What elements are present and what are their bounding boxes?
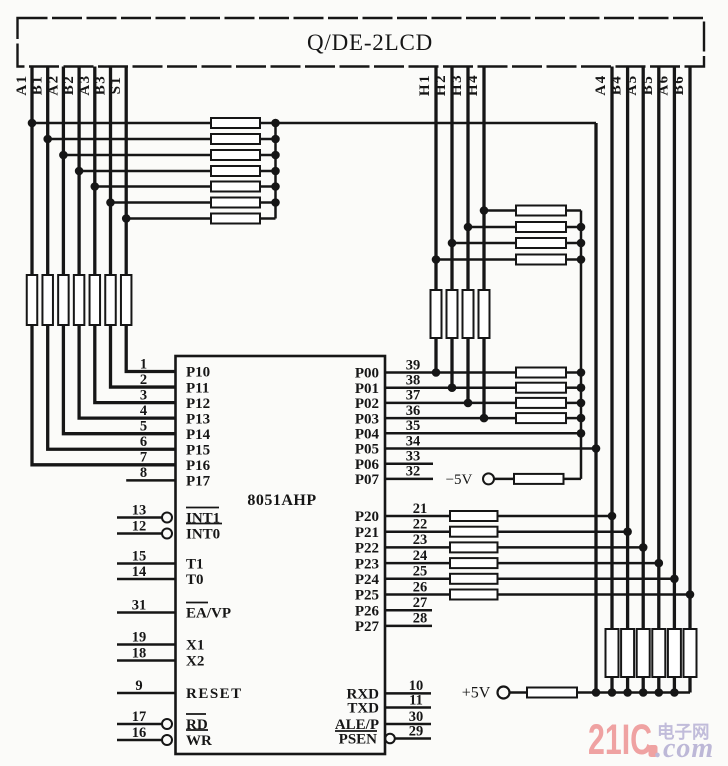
svg-text:P04: P04 — [355, 427, 380, 443]
node junction A2 row3 — [59, 151, 68, 160]
node bus1 row4 — [271, 167, 280, 176]
resistor R38 — [652, 629, 665, 677]
21IC logo — [588, 716, 714, 764]
svg-text:T0: T0 — [186, 572, 204, 588]
21IC logo period — [649, 745, 658, 757]
node H4 P03 junction — [480, 414, 489, 423]
wire H3 vertical from LCD — [466, 67, 469, 291]
pin 12 bubble — [162, 529, 172, 539]
wire R23 to bus2 — [566, 371, 581, 374]
wire pin 9 stub — [117, 692, 176, 695]
svg-text:P01: P01 — [355, 381, 379, 397]
wire B1 vertical from LCD — [46, 67, 49, 276]
wire R31 to B5 — [498, 562, 659, 565]
overline WR — [186, 729, 208, 731]
svg-text:P17: P17 — [186, 474, 211, 490]
svg-text:39: 39 — [406, 357, 421, 373]
svg-text:15: 15 — [132, 548, 147, 564]
svg-text:Q/DE-2LCD: Q/DE-2LCD — [307, 30, 433, 55]
svg-text:14: 14 — [132, 564, 147, 580]
wire A5 resistor to +5V bus — [642, 677, 645, 693]
svg-text:H1: H1 — [417, 74, 433, 96]
wire H row 4 — [436, 258, 516, 261]
wire A4 resistor to +5V bus — [610, 677, 613, 693]
svg-text:−5V: −5V — [446, 472, 473, 488]
node bus2 P04 — [577, 429, 586, 438]
node bus2 P01 — [577, 383, 586, 392]
wire +5V feed vertical — [594, 123, 597, 693]
wire pin 27 stub — [385, 609, 432, 612]
wire R1 to bus — [260, 122, 276, 125]
wire row S1 to R7 — [126, 217, 211, 220]
svg-text:37: 37 — [406, 388, 421, 404]
wire H3 below resistor to pin 37 — [466, 338, 469, 403]
resistor R25 — [516, 398, 566, 408]
pin 29 bubble — [385, 734, 395, 744]
wire R4 to bus — [260, 170, 276, 173]
node P05 tie to +5V feed — [592, 444, 601, 453]
svg-text:24: 24 — [413, 548, 428, 564]
wire H1 vertical from LCD — [434, 67, 437, 291]
resistor R16 — [516, 222, 566, 232]
svg-text:4: 4 — [140, 403, 147, 419]
svg-text:RESET: RESET — [186, 686, 243, 702]
svg-text:+5V: +5V — [462, 685, 491, 702]
wire pin 17 stub — [117, 723, 162, 726]
resistor R13 — [105, 275, 116, 325]
wire pin 13 stub — [117, 516, 162, 519]
svg-text:P20: P20 — [355, 509, 379, 525]
wire pin 38 row — [385, 386, 516, 389]
wire pin 35 row — [385, 432, 581, 435]
-5V terminal — [483, 473, 494, 484]
svg-text:29: 29 — [409, 723, 424, 739]
svg-text:5: 5 — [140, 419, 147, 435]
wire S1 vertical from LCD — [125, 67, 128, 276]
resistor R11 — [74, 275, 85, 325]
svg-text:P05: P05 — [355, 442, 379, 458]
svg-text:P14: P14 — [186, 427, 211, 443]
node bus1 row5 — [271, 182, 280, 191]
wire H4 below resistor to pin 36 — [482, 338, 485, 418]
wire R26 to bus2 — [566, 417, 581, 420]
node +5V bus node A4 — [608, 688, 617, 697]
resistor R12 — [90, 275, 101, 325]
wire pull-up bus 1 — [274, 123, 277, 219]
node +5V bus node A5 — [639, 688, 648, 697]
resistor R14 — [121, 275, 132, 325]
wire H4 vertical from LCD — [482, 67, 485, 291]
svg-text:2: 2 — [140, 372, 147, 388]
resistor R8 — [27, 275, 38, 325]
wire A4 vertical from LCD — [610, 67, 613, 630]
resistor R37 — [637, 629, 650, 677]
wire R24 to bus2 — [566, 386, 581, 389]
wire R17 to bus2 — [566, 242, 581, 245]
wire row A1 to R1 — [32, 122, 211, 125]
node H3 row junction — [464, 223, 473, 232]
node bus2 H row3 — [577, 239, 586, 248]
wire A1 vertical from LCD — [30, 67, 33, 276]
wire pin 15 stub — [117, 562, 176, 565]
wire R28 to A4 — [498, 515, 613, 518]
node bus1 row2 — [271, 135, 280, 144]
wire A2 below resistor to pin 5 — [63, 325, 175, 434]
resistor R9 — [42, 275, 53, 325]
svg-text:P16: P16 — [186, 458, 211, 474]
wire row B3 to R6 — [111, 201, 212, 204]
wire pin 19 stub — [117, 643, 176, 646]
LCD module Q/DE-2LCD — [18, 18, 705, 67]
svg-text:A4: A4 — [593, 74, 609, 95]
wire pin 12 stub — [117, 532, 162, 535]
svg-text:18: 18 — [132, 645, 147, 661]
node bus1 row6 — [271, 198, 280, 207]
wire B2 vertical from LCD — [77, 67, 80, 276]
svg-text:X2: X2 — [186, 654, 204, 670]
svg-text:1: 1 — [140, 356, 147, 372]
wire +5V bottom bus — [577, 691, 690, 694]
svg-text:P11: P11 — [186, 380, 209, 396]
svg-text:P27: P27 — [355, 619, 380, 635]
resistor R27 — [514, 474, 564, 484]
node bus2 P00 — [577, 368, 586, 377]
wire R16 to bus2 — [566, 226, 581, 229]
wire pin 28 stub — [385, 625, 432, 628]
wire A6 vertical from LCD — [673, 67, 676, 630]
resistor R1 — [211, 118, 260, 128]
resistor R29 — [450, 527, 498, 537]
wire R5 to bus — [260, 185, 276, 188]
wire B6 vertical from LCD — [688, 67, 691, 630]
overline PSEN — [335, 730, 377, 732]
pin 17 bubble — [162, 719, 172, 729]
svg-text:WR: WR — [186, 733, 212, 749]
resistor R33 — [450, 590, 498, 600]
svg-text:13: 13 — [132, 502, 147, 518]
svg-text:27: 27 — [413, 595, 428, 611]
wire R25 to bus2 — [566, 402, 581, 405]
svg-text:33: 33 — [406, 449, 421, 465]
wire B5 resistor to +5V bus — [657, 677, 660, 693]
wire pin 21 row — [385, 515, 450, 518]
svg-text:6: 6 — [140, 434, 147, 450]
wire pin 37 row — [385, 402, 516, 405]
node H3 P02 junction — [464, 399, 473, 408]
overline INT1 — [186, 507, 219, 509]
resistor R28 — [450, 511, 498, 521]
resistor R34 — [527, 688, 577, 698]
svg-text:T1: T1 — [186, 557, 204, 573]
svg-text:21IC: 21IC — [588, 716, 652, 764]
node A5 P22 junction — [639, 543, 648, 552]
wire pin 23 row — [385, 546, 450, 549]
microcontroller U1 8051AHP body — [176, 356, 386, 754]
svg-text:11: 11 — [409, 692, 423, 708]
wire pin 16 stub — [117, 739, 162, 742]
wire pin 30 ALE stub — [385, 723, 431, 726]
node H2 P01 junction — [448, 383, 457, 392]
wire B4 vertical from LCD — [626, 67, 629, 630]
resistor R19 — [431, 290, 442, 338]
wire pin 25 row — [385, 578, 450, 581]
wire row A3 to R5 — [95, 185, 211, 188]
resistor R15 — [516, 206, 566, 216]
node junction B1 row2 — [43, 135, 52, 144]
resistor R31 — [450, 558, 498, 568]
resistor R24 — [516, 383, 566, 393]
svg-text:8: 8 — [140, 465, 147, 481]
wire pin 8 stub — [126, 479, 175, 482]
wire pin 34 row — [385, 447, 596, 450]
wire A1 below resistor to pin 7 — [32, 325, 176, 465]
svg-text:26: 26 — [413, 579, 428, 595]
node bus2 H row4 — [577, 255, 586, 264]
svg-text:P00: P00 — [355, 366, 379, 382]
overline INT0 — [186, 523, 222, 525]
wire B6 resistor to +5V bus — [688, 677, 691, 693]
wire R27 to bus2 — [564, 478, 582, 481]
resistor R5 — [211, 182, 260, 192]
wire -5V to R27 — [494, 478, 514, 481]
wire row B2 to R4 — [79, 170, 211, 173]
resistor R32 — [450, 574, 498, 584]
svg-text:P13: P13 — [186, 411, 210, 427]
svg-text:22: 22 — [413, 517, 428, 533]
svg-text:3: 3 — [140, 387, 147, 403]
svg-text:P10: P10 — [186, 365, 210, 381]
svg-text:31: 31 — [132, 597, 147, 613]
resistor R22 — [479, 290, 490, 338]
node bus1 row1 — [271, 119, 280, 128]
wire pin 22 row — [385, 530, 450, 533]
wire B2 below resistor to pin 4 — [79, 325, 175, 418]
wire pin 39 row — [385, 371, 516, 374]
svg-text:EA/VP: EA/VP — [186, 606, 231, 622]
svg-text:P07: P07 — [355, 472, 380, 488]
resistor R17 — [516, 238, 566, 248]
svg-text:P23: P23 — [355, 556, 379, 572]
wire H row 1 — [484, 209, 516, 212]
pin 16 bubble — [162, 735, 172, 745]
resistor R26 — [516, 413, 566, 423]
svg-text:P15: P15 — [186, 442, 210, 458]
wire row B1 to R2 — [48, 138, 211, 141]
wire R7 to bus — [260, 217, 276, 220]
svg-text:P06: P06 — [355, 457, 380, 473]
wire +5V feed top — [276, 122, 597, 125]
svg-text:A1: A1 — [14, 74, 30, 95]
wire A5 vertical from LCD — [642, 67, 645, 630]
node junction S1 row7 — [122, 214, 131, 223]
resistor R30 — [450, 542, 498, 552]
svg-text:INT0: INT0 — [186, 527, 220, 543]
svg-text:32: 32 — [406, 464, 421, 480]
resistor R36 — [621, 629, 634, 677]
node junction A1 row1 — [28, 119, 37, 128]
node B4 P21 junction — [623, 527, 632, 536]
wire R29 to B4 — [498, 530, 628, 533]
node B6 P25 junction — [686, 590, 695, 599]
node B5 P23 junction — [655, 559, 664, 568]
svg-text:16: 16 — [132, 725, 147, 741]
pin 13 bubble — [162, 513, 172, 523]
wire pin 11 TXD stub — [385, 706, 431, 709]
node bus2 P02 — [577, 399, 586, 408]
node H1 row junction — [432, 255, 441, 264]
wire pin 24 row — [385, 562, 450, 565]
resistor R21 — [463, 290, 474, 338]
svg-text:12: 12 — [132, 518, 147, 534]
svg-text:25: 25 — [413, 564, 428, 580]
wire pin 32 stub — [385, 478, 433, 481]
svg-text:X1: X1 — [186, 638, 204, 654]
node +5V bus node B5 — [655, 688, 664, 697]
wire R3 to bus — [260, 154, 276, 157]
svg-text:9: 9 — [135, 678, 142, 694]
wire H2 below resistor to pin 38 — [450, 338, 453, 388]
wire H row 2 — [468, 226, 516, 229]
node +5V feed to bottom bus — [592, 688, 601, 697]
wire A3 vertical from LCD — [93, 67, 96, 276]
wire R32 to A6 — [498, 578, 675, 581]
wire S1 below resistor to pin 1 — [126, 325, 175, 372]
node bus2 H row2 — [577, 223, 586, 232]
wire R33 to B6 — [498, 593, 691, 596]
wire R15 to bus2 — [566, 209, 581, 212]
svg-text:P26: P26 — [355, 603, 380, 619]
svg-text:35: 35 — [406, 418, 421, 434]
wire pin 33 stub — [385, 462, 433, 465]
svg-text:P12: P12 — [186, 396, 210, 412]
wire A2 vertical from LCD — [62, 67, 65, 276]
wire B5 vertical from LCD — [657, 67, 660, 630]
svg-text:34: 34 — [406, 433, 421, 449]
svg-text:21: 21 — [413, 501, 428, 517]
node H4 row junction — [480, 206, 489, 215]
wire H row 3 — [452, 242, 516, 245]
wire B1 below resistor to pin 6 — [48, 325, 176, 449]
wire R2 to bus — [260, 138, 276, 141]
wire B4 resistor to +5V bus — [626, 677, 629, 693]
wire R18 to bus2 — [566, 258, 581, 261]
svg-text:.com: .com — [655, 733, 714, 764]
svg-text:P03: P03 — [355, 411, 379, 427]
wire pin 10 RXD stub — [385, 692, 431, 695]
node A4 P20 junction — [608, 512, 617, 521]
svg-text:19: 19 — [132, 629, 147, 645]
overline RD — [186, 713, 206, 715]
wire R30 to A5 — [498, 546, 644, 549]
wire pin 18 stub — [117, 659, 176, 662]
svg-text:TXD: TXD — [347, 701, 379, 717]
resistor R18 — [516, 255, 566, 265]
overline EA — [186, 602, 208, 604]
svg-text:P02: P02 — [355, 396, 379, 412]
node junction B2 row4 — [75, 167, 84, 176]
wire A3 below resistor to pin 3 — [95, 325, 176, 403]
wire row A2 to R3 — [63, 154, 211, 157]
svg-text:28: 28 — [413, 611, 428, 627]
node +5V bus node B4 — [623, 688, 632, 697]
node H2 row junction — [448, 239, 457, 248]
wire pin 36 row — [385, 417, 516, 420]
svg-text:38: 38 — [406, 373, 421, 389]
node junction A3 row5 — [91, 182, 100, 191]
resistor R7 — [211, 214, 260, 224]
resistor R2 — [211, 134, 260, 144]
wire B3 vertical from LCD — [109, 67, 112, 276]
svg-text:P21: P21 — [355, 525, 379, 541]
node A6 P24 junction — [670, 575, 679, 584]
resistor R20 — [447, 290, 458, 338]
resistor R6 — [211, 198, 260, 208]
wire pin 14 stub — [117, 578, 176, 581]
resistor R40 — [684, 629, 697, 677]
node bus1 row3 — [271, 151, 280, 160]
svg-text:P22: P22 — [355, 541, 379, 557]
wire B3 below resistor to pin 2 — [111, 325, 176, 387]
svg-text:36: 36 — [406, 403, 421, 419]
svg-text:P24: P24 — [355, 572, 380, 588]
wire pin 29 PSEN stub — [395, 737, 431, 740]
node +5V bus node A6 — [670, 688, 679, 697]
svg-text:8051AHP: 8051AHP — [247, 492, 316, 509]
wire R6 to bus — [260, 201, 276, 204]
resistor R39 — [668, 629, 681, 677]
svg-text:P25: P25 — [355, 588, 379, 604]
svg-text:PSEN: PSEN — [339, 732, 378, 748]
resistor R35 — [606, 629, 619, 677]
node junction B3 row6 — [106, 198, 115, 207]
svg-text:17: 17 — [132, 709, 147, 725]
node H1 P00 junction — [432, 368, 441, 377]
svg-text:7: 7 — [140, 450, 147, 466]
wire pin 26 row — [385, 593, 450, 596]
wire A6 resistor to +5V bus — [673, 677, 676, 693]
resistor R3 — [211, 150, 260, 160]
wire H2 vertical from LCD — [450, 67, 453, 291]
wire pin 31 stub — [117, 611, 176, 614]
resistor R10 — [58, 275, 69, 325]
svg-text:23: 23 — [413, 532, 428, 548]
wire -5V bus 2 — [580, 211, 583, 479]
resistor R23 — [516, 368, 566, 378]
node bus2 P03 — [577, 414, 586, 423]
wire +5V to R34 — [510, 691, 528, 694]
resistor R4 — [211, 166, 260, 176]
+5V terminal — [498, 687, 510, 699]
wire H1 below resistor to pin 39 — [434, 338, 437, 373]
